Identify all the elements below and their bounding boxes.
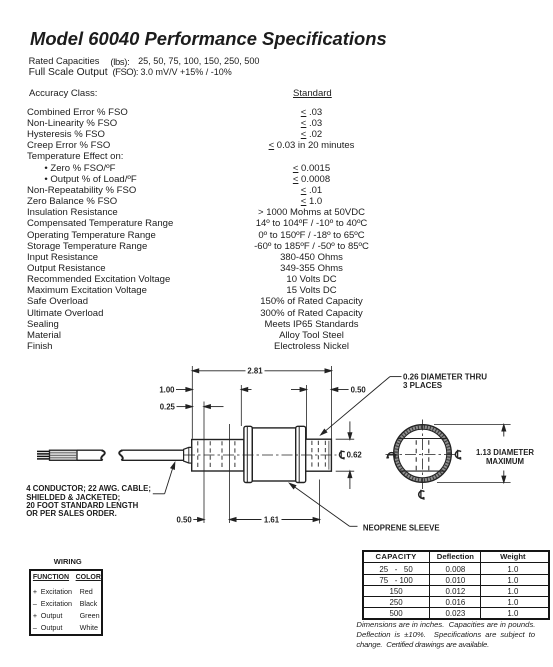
centerline symbol right <box>455 450 461 459</box>
svg-text:0.50: 0.50 <box>351 386 367 395</box>
thread root lines (right stub) <box>311 441 313 470</box>
leader for neoprene sleeve <box>290 483 296 488</box>
svg-text:3 PLACES: 3 PLACES <box>403 381 443 390</box>
dimension 0.50 top <box>291 389 301 391</box>
svg-text:0.50: 0.50 <box>177 516 193 525</box>
svg-text:1.61: 1.61 <box>264 516 280 525</box>
extension line F <box>319 480 321 524</box>
specification rows <box>27 107 128 118</box>
centerline symbol left <box>387 453 396 459</box>
left flange <box>244 426 252 482</box>
cable jacket right segment <box>123 449 184 451</box>
load cell threaded section (left) <box>192 440 244 472</box>
wiring box border <box>29 569 104 637</box>
svg-text:NEOPRENE SLEEVE: NEOPRENE SLEEVE <box>363 524 440 533</box>
end view centerlines <box>386 454 456 456</box>
title <box>30 28 387 50</box>
centerline symbol at 0.62 <box>339 450 344 459</box>
wiring header COLOR <box>76 574 101 581</box>
cable shield braid section <box>50 450 78 460</box>
centerline symbol bottom <box>419 490 425 499</box>
leader for cable note <box>153 493 165 495</box>
wiring header FUNCTION <box>33 574 69 581</box>
extension line B <box>203 402 205 524</box>
header line 2 <box>29 67 108 78</box>
cable jacket left segment <box>77 449 102 451</box>
accuracy class row <box>29 88 97 99</box>
dimension 1.61 <box>230 518 236 522</box>
exposed conductor wires <box>37 450 50 452</box>
engineering drawing <box>0 355 553 555</box>
leader for 0.26 diameter thru holes <box>390 376 402 378</box>
header line 1 <box>29 56 100 66</box>
extension line E <box>306 385 308 439</box>
svg-text:MAXIMUM: MAXIMUM <box>486 457 524 466</box>
threaded stub (right) <box>306 439 332 471</box>
centerline (side view) <box>184 454 337 456</box>
hidden hole lines <box>415 440 417 470</box>
dimension 0.62 <box>336 438 355 440</box>
cable strain-relief fitting <box>184 447 192 463</box>
capacity table <box>362 550 550 620</box>
end view outer circle <box>394 425 451 482</box>
wiring rows <box>33 587 37 596</box>
extension line D <box>240 385 242 426</box>
neoprene sleeve (center body) <box>252 428 295 481</box>
cable note text <box>26 485 151 518</box>
right flange <box>296 426 306 482</box>
footnote <box>356 620 535 629</box>
extension line A <box>191 366 193 439</box>
thread root lines (left section) <box>197 441 199 469</box>
svg-text:0.62: 0.62 <box>347 451 363 460</box>
extension line G <box>330 366 332 439</box>
cable break symbol (right) <box>119 450 123 460</box>
dimension 1.13 diameter maximum <box>434 424 511 426</box>
extension line C <box>229 424 231 523</box>
wiring table title <box>54 557 82 566</box>
svg-text:2.81: 2.81 <box>247 367 263 376</box>
cable break symbol (left) <box>101 450 105 460</box>
svg-text:0.25: 0.25 <box>160 403 176 412</box>
knurled rim <box>396 427 449 480</box>
svg-text:1.00: 1.00 <box>159 386 175 395</box>
dimension 2.81 <box>192 370 245 372</box>
flat chords <box>398 438 446 440</box>
svg-text:1.13 DIAMETER: 1.13 DIAMETER <box>476 448 534 457</box>
